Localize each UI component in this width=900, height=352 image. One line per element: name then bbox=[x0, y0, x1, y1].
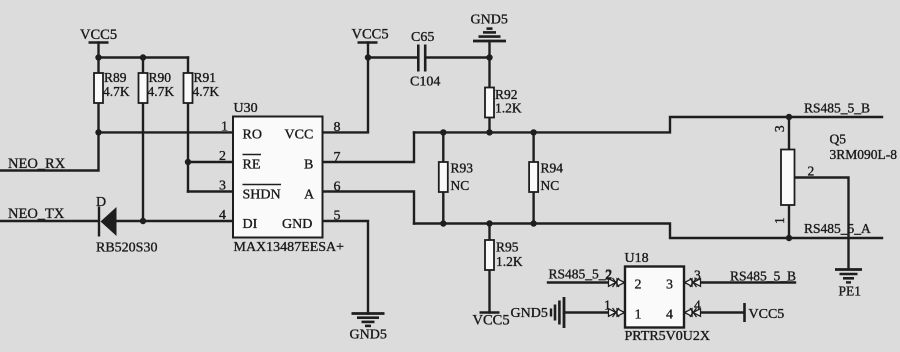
wire C65 to GND junction bbox=[426, 56, 490, 58]
wire U18 pin3 bbox=[685, 281, 796, 283]
svg-text:1: 1 bbox=[221, 120, 228, 135]
resistor R93 bbox=[439, 161, 473, 194]
svg-text:RE: RE bbox=[243, 158, 261, 173]
wire R93 top stem bbox=[442, 132, 444, 162]
wire R95 top stem bbox=[488, 224, 490, 241]
svg-text:R90: R90 bbox=[149, 70, 172, 85]
wire pin8 VCC bbox=[323, 58, 369, 133]
resistor R92 bbox=[485, 87, 522, 118]
resistor R89 bbox=[94, 70, 130, 103]
junction R94 bottom bbox=[530, 220, 536, 226]
svg-text:RB520S30: RB520S30 bbox=[96, 241, 157, 256]
wire diode to pin4 DI bbox=[117, 220, 233, 222]
wire R92 top stem bbox=[488, 58, 490, 88]
junction R89/pin1 bbox=[95, 129, 101, 135]
svg-text:GND5: GND5 bbox=[511, 306, 548, 321]
svg-text:6: 6 bbox=[334, 180, 341, 195]
pin arrow U18 pin2 bbox=[609, 278, 625, 287]
svg-text:GND5: GND5 bbox=[350, 328, 387, 343]
op-amp U18 PRTR5V0U2X body bbox=[625, 251, 711, 344]
svg-text:B: B bbox=[304, 158, 313, 173]
junction R93 top bbox=[440, 129, 446, 135]
svg-text:Q5: Q5 bbox=[830, 132, 847, 147]
wire R93 bottom stem bbox=[442, 192, 444, 224]
svg-text:2: 2 bbox=[635, 278, 642, 293]
wire VCC5 mid stem bbox=[367, 43, 369, 58]
svg-text:4: 4 bbox=[219, 208, 226, 223]
wire pin1 RO bbox=[99, 131, 233, 133]
ground GND5 bottom (U30 pin5) bbox=[350, 314, 387, 343]
svg-text:R93: R93 bbox=[451, 161, 474, 176]
junction VCC5 mid bbox=[365, 54, 371, 60]
svg-text:NEO_RX: NEO_RX bbox=[8, 156, 66, 172]
wire R91 top stem bbox=[187, 58, 189, 74]
pin name RE (active low) bbox=[243, 155, 262, 173]
power symbol VCC5 (U18 pin4) bbox=[745, 303, 785, 322]
svg-text:3: 3 bbox=[219, 179, 226, 194]
wire R91 bottom stem bbox=[187, 103, 189, 192]
svg-text:PE1: PE1 bbox=[839, 284, 862, 299]
svg-text:RS485_5_B: RS485_5_B bbox=[730, 269, 796, 284]
resistor R94 bbox=[529, 161, 563, 194]
diode D RB520S30 bbox=[96, 195, 157, 256]
svg-text:GND5: GND5 bbox=[471, 13, 508, 28]
wire A rail to RS485_5_A bbox=[414, 224, 882, 239]
wire VCC to C65 bbox=[368, 56, 417, 58]
resistor R95 bbox=[485, 240, 523, 271]
svg-text:RS485_5_2: RS485_5_2 bbox=[549, 267, 613, 282]
op-amp U30 MAX13487EESA+ body bbox=[233, 101, 344, 255]
svg-text:1.2K: 1.2K bbox=[495, 101, 522, 116]
wire R90 bottom stem bbox=[142, 103, 144, 221]
svg-text:C65: C65 bbox=[411, 30, 434, 45]
svg-text:NC: NC bbox=[451, 178, 470, 193]
wire R95 bottom stem to VCC5 bbox=[488, 270, 490, 313]
svg-text:1: 1 bbox=[772, 217, 787, 224]
wire NEO_RX to R89/pin1 bbox=[0, 132, 99, 170]
junction R90/NEO_TX bbox=[140, 218, 146, 224]
svg-text:RS485_5_B: RS485_5_B bbox=[804, 101, 870, 116]
svg-text:MAX13487EESA+: MAX13487EESA+ bbox=[234, 240, 345, 255]
svg-text:3RM090L-8: 3RM090L-8 bbox=[830, 147, 898, 162]
svg-text:7: 7 bbox=[334, 150, 341, 165]
junction VCC5/R89 bbox=[95, 54, 101, 60]
svg-text:DI: DI bbox=[243, 217, 258, 232]
svg-text:C104: C104 bbox=[410, 75, 440, 90]
svg-text:2: 2 bbox=[219, 149, 226, 164]
power symbol VCC5 top-left bbox=[80, 27, 117, 43]
svg-text:RS485_5_A: RS485_5_A bbox=[804, 221, 871, 236]
svg-text:U18: U18 bbox=[625, 251, 649, 266]
wire R94 top stem bbox=[532, 132, 534, 162]
svg-text:R95: R95 bbox=[496, 240, 519, 255]
resistor R91 bbox=[184, 70, 220, 103]
svg-text:3: 3 bbox=[666, 278, 673, 293]
wire Q5 pin2 to PE1 bbox=[795, 178, 849, 270]
wire U18 pin2 bbox=[548, 281, 625, 283]
svg-text:VCC5: VCC5 bbox=[352, 27, 389, 43]
wire R90 top stem bbox=[142, 58, 144, 74]
svg-text:VCC5: VCC5 bbox=[473, 313, 510, 329]
junction R94 top bbox=[530, 129, 536, 135]
junction R92 bottom bbox=[486, 129, 492, 135]
power symbol VCC5 top-mid bbox=[352, 27, 389, 43]
pin arrow U18 pin3 bbox=[685, 278, 701, 287]
svg-text:4: 4 bbox=[666, 308, 673, 323]
svg-text:VCC5: VCC5 bbox=[80, 27, 117, 43]
svg-text:2: 2 bbox=[808, 164, 815, 179]
pin name SHDN (active low) bbox=[243, 185, 282, 203]
wire U18 pin1 bbox=[564, 311, 625, 313]
wire pin7 B up bbox=[323, 132, 415, 162]
wire U18 pin4 bbox=[685, 311, 745, 313]
svg-text:GND: GND bbox=[282, 217, 312, 232]
wire R92 bottom stem bbox=[488, 118, 490, 133]
svg-text:8: 8 bbox=[334, 120, 341, 135]
svg-text:5: 5 bbox=[334, 209, 341, 224]
svg-text:D: D bbox=[96, 195, 106, 210]
svg-text:R91: R91 bbox=[194, 70, 217, 85]
wire Q5 pin1 stem bbox=[788, 205, 790, 238]
ground GND5 sideways (U18 pin1) bbox=[511, 297, 565, 328]
svg-text:R89: R89 bbox=[104, 70, 127, 85]
svg-text:A: A bbox=[304, 188, 315, 203]
capacitor C65 bbox=[410, 30, 440, 90]
wire GND5 top stem bbox=[488, 41, 490, 58]
wire R94 bottom stem bbox=[532, 192, 534, 224]
svg-text:4.7K: 4.7K bbox=[103, 84, 130, 99]
svg-text:VCC: VCC bbox=[285, 128, 314, 143]
wire Q5 pin3 stem bbox=[788, 117, 790, 150]
wire NEO_TX bbox=[0, 220, 98, 222]
wire VCC5 top rail bbox=[99, 56, 189, 58]
ground GND5 top bbox=[471, 13, 508, 42]
junction Q5 pin3 bbox=[786, 114, 792, 120]
junction Q5 pin1 bbox=[786, 235, 792, 241]
junction GND5/R92 bbox=[486, 54, 492, 60]
junction R93 bottom bbox=[440, 220, 446, 226]
wire B rail to RS485_5_B bbox=[414, 117, 882, 132]
svg-text:3: 3 bbox=[772, 125, 787, 132]
wire pin6 A down bbox=[323, 192, 415, 224]
power symbol VCC5 bottom (R95) bbox=[473, 313, 510, 329]
transistor Q5 3RM090L-8 body bbox=[781, 132, 897, 206]
svg-text:4.7K: 4.7K bbox=[193, 84, 220, 99]
svg-text:VCC5: VCC5 bbox=[749, 307, 785, 322]
svg-text:NC: NC bbox=[541, 178, 560, 193]
resistor R90 bbox=[139, 70, 175, 103]
pin arrow U18 pin4 bbox=[685, 308, 701, 317]
junction R90 top bbox=[140, 54, 146, 60]
wire R89 top stem bbox=[97, 43, 99, 74]
pin arrow U18 pin1 bbox=[609, 308, 625, 317]
wire pin3 SHDN bbox=[188, 190, 233, 192]
wire pin2 RE bbox=[188, 161, 233, 163]
junction R95 top bbox=[486, 220, 492, 226]
junction R91/pin2 bbox=[185, 159, 191, 165]
svg-text:1: 1 bbox=[635, 308, 642, 323]
svg-text:1.2K: 1.2K bbox=[496, 254, 523, 269]
svg-text:SHDN: SHDN bbox=[243, 188, 281, 203]
svg-text:U30: U30 bbox=[234, 101, 258, 116]
svg-text:R94: R94 bbox=[541, 161, 564, 176]
svg-text:4.7K: 4.7K bbox=[148, 84, 175, 99]
svg-text:NEO_TX: NEO_TX bbox=[8, 206, 65, 222]
svg-text:PRTR5V0U2X: PRTR5V0U2X bbox=[625, 329, 711, 344]
ground PE1 bbox=[835, 270, 862, 299]
wire pin5 GND down bbox=[323, 221, 369, 314]
svg-text:RO: RO bbox=[243, 128, 262, 143]
wire R89 bottom stem bbox=[97, 103, 99, 132]
